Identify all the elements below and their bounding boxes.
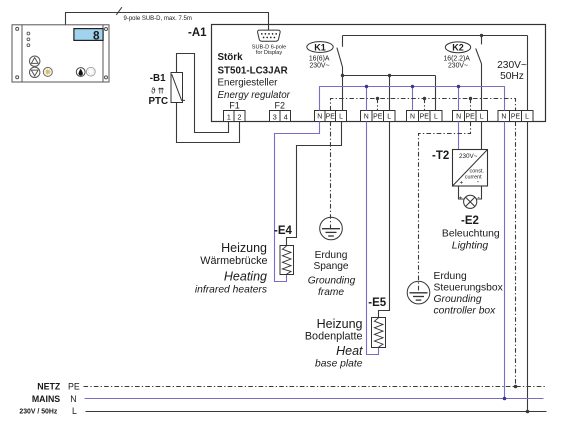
- node PE bus block C: [423, 97, 426, 100]
- node N bus block C: [411, 85, 414, 88]
- svg-text:L: L: [525, 114, 529, 121]
- terminal block A (N PE L): [315, 111, 347, 122]
- svg-text:PE: PE: [465, 114, 475, 121]
- terminal 1: [224, 111, 235, 122]
- svg-text:16(2.2)A: 16(2.2)A: [443, 56, 470, 63]
- wire L block E to mains: [527, 36, 529, 412]
- svg-text:L: L: [339, 114, 343, 121]
- label heater E5: [305, 317, 363, 370]
- svg-text:+: +: [460, 180, 464, 187]
- node PE rail junction: [514, 385, 518, 389]
- svg-text:controller box: controller box: [434, 306, 497, 317]
- panel button down: [30, 67, 40, 77]
- svg-text:L: L: [434, 114, 438, 121]
- svg-text:-E5: -E5: [368, 297, 387, 309]
- svg-text:PE: PE: [511, 114, 521, 121]
- wire B1 top to terminal 1: [177, 54, 229, 133]
- svg-text:3: 3: [273, 112, 277, 121]
- panel button right (faint): [86, 67, 95, 76]
- terminal block B (N PE L): [361, 111, 396, 122]
- svg-text:9-pole SUB-D, max. 7.5m: 9-pole SUB-D, max. 7.5m: [124, 16, 192, 22]
- panel LCD display showing 8: [74, 28, 103, 42]
- svg-text:Heat: Heat: [336, 344, 363, 358]
- svg-text:Lighting: Lighting: [452, 241, 489, 252]
- svg-text:Heizung: Heizung: [317, 317, 363, 331]
- svg-text:16(6)A: 16(6)A: [309, 55, 330, 62]
- lamp E2: [459, 186, 482, 208]
- svg-text:F1: F1: [229, 100, 240, 110]
- node PE bus block B: [376, 97, 379, 100]
- svg-text:230V / 50Hz: 230V / 50Hz: [19, 409, 57, 416]
- svg-text:-T2: -T2: [432, 150, 449, 162]
- svg-text:-: -: [478, 195, 481, 202]
- svg-text:PE: PE: [373, 114, 383, 121]
- svg-text:N: N: [456, 114, 461, 121]
- svg-text:N: N: [317, 114, 322, 121]
- node N rail junction: [503, 397, 507, 401]
- svg-text:-E4: -E4: [274, 225, 293, 237]
- svg-text:Beleuchtung: Beleuchtung: [442, 229, 500, 240]
- svg-text:PE: PE: [326, 114, 336, 121]
- svg-text:+: +: [459, 195, 463, 202]
- wire L from K2 to transformer T2: [481, 122, 483, 150]
- svg-text:Steuerungsbox: Steuerungsbox: [434, 283, 504, 294]
- node L bus block B: [388, 74, 391, 77]
- wire L bus from K1: [343, 76, 436, 111]
- svg-text:-A1: -A1: [188, 27, 207, 39]
- transformer T2: [432, 150, 488, 187]
- mains N rail (blue): [85, 398, 544, 400]
- mains L rail: [86, 411, 547, 413]
- svg-text:230V~: 230V~: [309, 62, 329, 69]
- svg-text:ϑ ⇈: ϑ ⇈: [151, 86, 165, 95]
- svg-text:L: L: [72, 406, 77, 416]
- svg-text:L: L: [387, 114, 391, 121]
- relay contact K1: [307, 36, 343, 111]
- relay contact K2: [443, 36, 481, 111]
- svg-text:L: L: [480, 114, 484, 121]
- panel button light (yellow): [43, 67, 52, 76]
- A1 title text: [218, 52, 291, 101]
- wire N to transformer T2 (blue): [458, 122, 460, 150]
- terminal block C (N PE L): [407, 111, 443, 122]
- svg-text:230V~: 230V~: [448, 63, 468, 70]
- wire PE to grounding frame (dash-dot): [330, 122, 332, 229]
- node K2 tap: [480, 34, 483, 37]
- wire display cable: [66, 13, 269, 31]
- panel button up: [30, 56, 40, 66]
- heater E5: [368, 297, 387, 347]
- regulator box A1: [212, 25, 546, 122]
- svg-text:K1: K1: [314, 42, 326, 52]
- svg-text:1: 1: [227, 112, 231, 121]
- node N bus block D: [457, 85, 460, 88]
- svg-text:230V~: 230V~: [497, 60, 527, 71]
- svg-text:50Hz: 50Hz: [500, 71, 524, 82]
- svg-text:8: 8: [93, 28, 100, 42]
- svg-text:PTC: PTC: [149, 96, 169, 107]
- svg-text:NETZ: NETZ: [37, 382, 61, 392]
- wire L to heater E5: [379, 122, 390, 318]
- svg-text:Wärmebrücke: Wärmebrücke: [200, 255, 267, 267]
- PTC sensor B1: [149, 73, 186, 107]
- svg-text:-B1: -B1: [150, 73, 166, 84]
- heater E4: [274, 225, 294, 275]
- wire PE to grounding controller box (dash-dot): [419, 122, 471, 293]
- svg-text:for Display: for Display: [256, 50, 283, 56]
- terminal block E (N PE L): [498, 111, 533, 122]
- svg-text:-E2: -E2: [461, 215, 479, 227]
- terminal 3: [270, 111, 281, 122]
- svg-text:base plate: base plate: [315, 359, 363, 370]
- svg-text:230V~: 230V~: [459, 153, 478, 160]
- svg-text:Bodenplatte: Bodenplatte: [305, 331, 363, 343]
- mains labels: [19, 382, 80, 416]
- svg-text:Heizung: Heizung: [221, 241, 267, 255]
- wire L feed bus top: [343, 35, 528, 37]
- SUB-D connector: [252, 30, 287, 56]
- wire B1 bottom to terminal 2: [177, 103, 240, 143]
- svg-text:N: N: [410, 114, 415, 121]
- svg-text:Spange: Spange: [313, 261, 348, 272]
- svg-text:4: 4: [284, 112, 288, 121]
- svg-text:Störk: Störk: [218, 52, 244, 63]
- terminal 2: [234, 111, 245, 122]
- svg-text:MAINS: MAINS: [32, 394, 60, 404]
- svg-text:frame: frame: [318, 287, 344, 298]
- wire N bus (blue): [320, 87, 505, 111]
- svg-text:PE: PE: [420, 114, 430, 121]
- svg-text:infrared heaters: infrared heaters: [195, 285, 267, 296]
- svg-text:Grounding: Grounding: [308, 276, 356, 287]
- panel LEDs: [27, 32, 30, 47]
- svg-text:Heating: Heating: [224, 270, 267, 284]
- wire N to heater E4 (blue): [275, 122, 320, 282]
- node L rail junction: [526, 410, 530, 414]
- node N bus block B: [365, 85, 368, 88]
- mains PE rail (dash-dot): [84, 386, 546, 388]
- svg-text:Grounding: Grounding: [434, 294, 482, 305]
- node PE bus block D: [469, 97, 472, 100]
- svg-text:Erdung: Erdung: [434, 271, 467, 282]
- svg-text:Erdung: Erdung: [315, 250, 348, 261]
- wire N to heater E5 (blue): [367, 122, 379, 355]
- svg-text:F2: F2: [275, 100, 286, 110]
- svg-text:N: N: [364, 114, 369, 121]
- panel button defrost (dark drop): [76, 68, 85, 77]
- terminal block D (N PE L): [453, 111, 488, 122]
- earth symbol grounding controller box: [407, 281, 430, 304]
- svg-text:2: 2: [237, 112, 241, 121]
- svg-text:Energiesteller: Energiesteller: [218, 77, 279, 88]
- wire N block E to mains (blue): [504, 122, 506, 399]
- cable tick mark: [116, 7, 122, 15]
- wire PE bus (dash-dot): [331, 99, 516, 111]
- svg-text:K2: K2: [452, 43, 464, 53]
- label grounding controller box: [434, 271, 504, 317]
- svg-text:N: N: [501, 114, 506, 121]
- svg-text:N: N: [70, 394, 76, 404]
- label heater E4: [195, 241, 268, 296]
- node L bus K1: [341, 74, 344, 77]
- label lamp E2: [442, 215, 500, 251]
- svg-text:ST501-LC3JAR: ST501-LC3JAR: [218, 66, 288, 77]
- terminal 4: [280, 111, 291, 122]
- earth symbol grounding frame: [320, 217, 343, 240]
- label grounding frame: [308, 250, 356, 298]
- wire L to heater E4: [287, 122, 342, 246]
- display/control panel unit: [12, 25, 109, 82]
- svg-text:current: current: [465, 174, 482, 180]
- wire PE block E to mains (dash-dot): [515, 122, 517, 387]
- svg-text:PE: PE: [68, 382, 80, 392]
